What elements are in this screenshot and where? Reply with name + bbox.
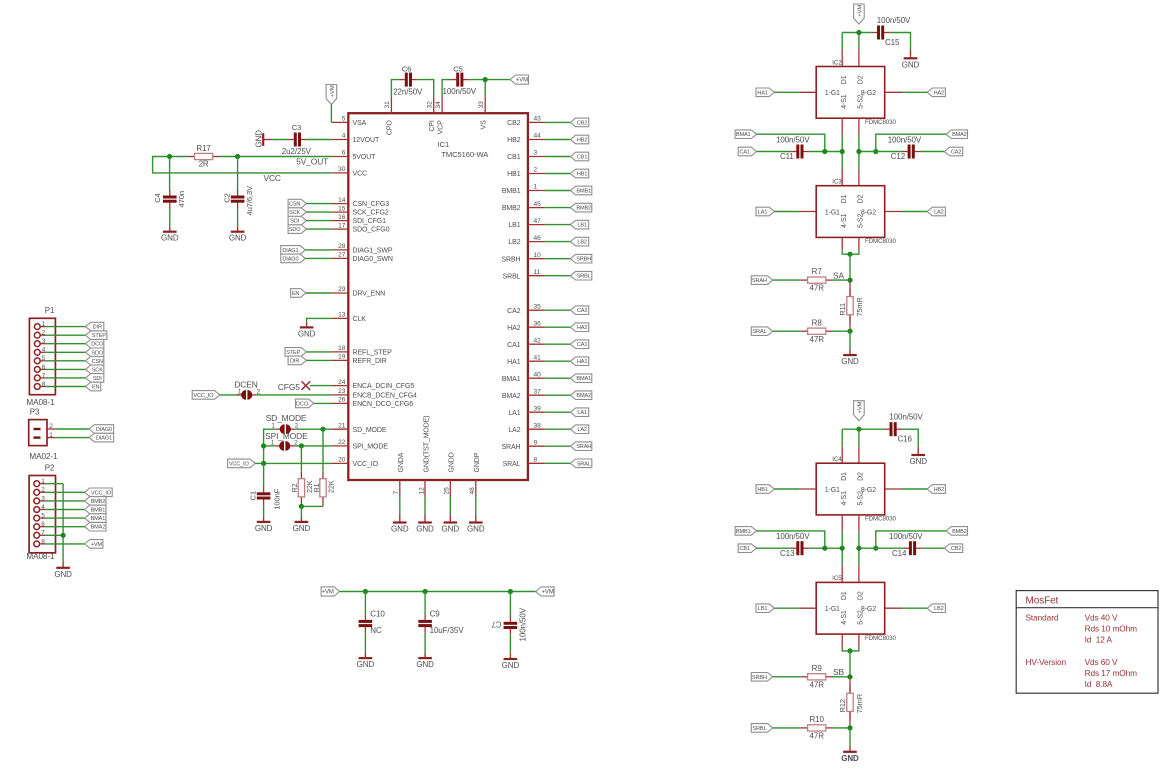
ground bbox=[424, 652, 426, 658]
P2 pin 7 bbox=[34, 532, 40, 538]
svg-text:43: 43 bbox=[534, 116, 542, 123]
svg-text:Vds 40 V: Vds 40 V bbox=[1085, 613, 1118, 623]
resistor R1 bbox=[322, 472, 324, 479]
node flag BMA2 bbox=[570, 391, 591, 400]
svg-text:+VM: +VM bbox=[542, 590, 554, 596]
junction bbox=[847, 252, 852, 257]
svg-text:CB2: CB2 bbox=[507, 120, 521, 127]
junction bbox=[61, 533, 66, 538]
wire bbox=[300, 506, 302, 517]
svg-text:15: 15 bbox=[338, 205, 346, 212]
svg-text:STEP: STEP bbox=[92, 333, 106, 339]
svg-text:GND: GND bbox=[902, 60, 920, 69]
svg-text:IC2: IC2 bbox=[832, 59, 842, 66]
wire to flag HA1 bbox=[545, 360, 571, 362]
IC1 pin 27 DIAG0_SWN stub bbox=[331, 257, 348, 259]
svg-text:GND: GND bbox=[502, 661, 520, 670]
svg-text:VCC_IO: VCC_IO bbox=[353, 461, 379, 468]
svg-text:BMA2: BMA2 bbox=[576, 393, 591, 399]
wire bbox=[46, 526, 85, 528]
wire bbox=[46, 343, 86, 345]
svg-text:SRBH: SRBH bbox=[576, 257, 591, 263]
node flag BMA2 bbox=[85, 522, 106, 531]
svg-text:FDMC8030: FDMC8030 bbox=[865, 238, 896, 245]
P2 pin 4 bbox=[34, 507, 40, 513]
svg-text:BMB2: BMB2 bbox=[576, 206, 591, 212]
node flag SRAL bbox=[570, 459, 591, 468]
svg-text:75mR: 75mR bbox=[855, 694, 864, 713]
svg-text:5V_OUT: 5V_OUT bbox=[296, 157, 328, 167]
wire bbox=[295, 428, 331, 430]
wire S1 riser bbox=[841, 118, 843, 135]
junction bbox=[822, 546, 827, 551]
svg-text:BMA1: BMA1 bbox=[91, 516, 106, 522]
svg-text:100nF: 100nF bbox=[272, 488, 281, 509]
svg-text:BMB2: BMB2 bbox=[952, 529, 967, 535]
wire bbox=[773, 279, 801, 281]
node flag BMB1 bbox=[570, 186, 591, 195]
junction bbox=[423, 589, 428, 594]
ground bbox=[849, 746, 851, 752]
supply flag +VM bbox=[854, 401, 865, 421]
node flag STEP bbox=[86, 331, 107, 340]
wire bbox=[449, 497, 451, 514]
svg-text:HB1: HB1 bbox=[577, 172, 587, 178]
wire bbox=[832, 727, 850, 729]
wire to flag HA2 bbox=[545, 326, 571, 328]
ground bbox=[849, 349, 851, 355]
wire bbox=[306, 220, 331, 222]
wire to flag CA2 bbox=[545, 309, 571, 311]
node flag BMB2 bbox=[570, 203, 591, 212]
svg-text:GND: GND bbox=[357, 660, 375, 669]
wire GND to C3 bbox=[272, 139, 288, 141]
node flag HB2 bbox=[927, 485, 945, 494]
wire bbox=[509, 592, 511, 617]
svg-text:C14: C14 bbox=[892, 549, 907, 558]
svg-text:5-S2: 5-S2 bbox=[858, 610, 865, 625]
svg-text:100n/50V: 100n/50V bbox=[776, 532, 810, 541]
wire bbox=[424, 497, 426, 514]
capacitor C13 bbox=[791, 547, 797, 549]
P1 pin 2 bbox=[34, 332, 40, 338]
svg-text:HB1: HB1 bbox=[507, 171, 521, 178]
svg-text:4: 4 bbox=[42, 347, 46, 354]
svg-text:5-S2: 5-S2 bbox=[858, 94, 865, 109]
IC1 pin 12 GND(TST_MODE) stub bbox=[424, 480, 426, 497]
svg-text:75mR: 75mR bbox=[855, 297, 864, 316]
svg-text:DIAG1: DIAG1 bbox=[282, 248, 298, 254]
node flag SRBL bbox=[751, 724, 772, 733]
svg-text:C1: C1 bbox=[249, 491, 258, 501]
node flag BMB2 bbox=[85, 497, 106, 506]
P1 pin 4 bbox=[34, 349, 40, 355]
P3 pin 1 bbox=[34, 436, 41, 438]
supply flag +VM bbox=[510, 75, 528, 84]
svg-text:GND: GND bbox=[54, 570, 72, 579]
wire D1 riser bbox=[841, 33, 843, 50]
junction bbox=[856, 149, 861, 154]
MosFet info table bbox=[1016, 591, 1158, 694]
svg-text:FDMC8030: FDMC8030 bbox=[865, 635, 896, 642]
svg-text:SPI_MODE: SPI_MODE bbox=[353, 444, 389, 451]
wire bbox=[305, 257, 331, 259]
wire bbox=[876, 531, 946, 548]
junction bbox=[856, 30, 861, 35]
junction bbox=[299, 443, 304, 448]
svg-text:6: 6 bbox=[41, 521, 45, 528]
svg-text:LB2: LB2 bbox=[577, 240, 587, 246]
node flag DIAG0 bbox=[281, 254, 306, 263]
node flag DIAG1 bbox=[281, 246, 306, 255]
supply flag +VM bbox=[536, 587, 554, 596]
svg-text:TMC5160-WA: TMC5160-WA bbox=[441, 150, 489, 159]
svg-text:R17: R17 bbox=[196, 144, 211, 153]
svg-text:HB2: HB2 bbox=[577, 138, 587, 144]
wire S2 riser bbox=[858, 515, 860, 532]
wire bbox=[859, 547, 903, 549]
junction bbox=[840, 546, 845, 551]
IC1 pin 6 5VOUT stub bbox=[331, 156, 348, 158]
svg-text:C2: C2 bbox=[223, 193, 232, 203]
svg-text:R7: R7 bbox=[812, 267, 823, 276]
IC1 pin 31 CPO stub bbox=[390, 96, 392, 113]
svg-text:470n: 470n bbox=[177, 191, 186, 208]
IC1 pin 7 GNDA stub bbox=[399, 480, 401, 497]
wire S1 S2 merge bbox=[841, 634, 843, 647]
svg-text:LA2: LA2 bbox=[577, 427, 587, 433]
ground bbox=[475, 514, 477, 522]
svg-text:10: 10 bbox=[534, 252, 542, 259]
IC1 pin 17 SDO_CFG0 stub bbox=[331, 228, 348, 230]
wire bbox=[773, 676, 801, 678]
IC1 pin 37 BMA2 stub bbox=[528, 394, 545, 396]
svg-text:MA08-1: MA08-1 bbox=[26, 552, 55, 561]
node flag DIAG1 bbox=[89, 433, 114, 442]
svg-text:3: 3 bbox=[534, 150, 538, 157]
IC1 pin 35 CA2 stub bbox=[528, 309, 545, 311]
wire to flag LB1 bbox=[545, 224, 571, 226]
wire bbox=[46, 534, 64, 536]
svg-text:13: 13 bbox=[338, 312, 346, 319]
svg-text:10uF/35V: 10uF/35V bbox=[430, 626, 465, 635]
svg-text:SDO: SDO bbox=[91, 350, 103, 356]
svg-text:GND: GND bbox=[909, 457, 927, 466]
svg-text:BMB1: BMB1 bbox=[91, 508, 106, 514]
svg-text:MA02-1: MA02-1 bbox=[29, 452, 58, 461]
IC1 pin 3 CB1 stub bbox=[528, 156, 545, 158]
svg-text:GND(TST_MODE): GND(TST_MODE) bbox=[423, 415, 430, 472]
svg-text:DCO: DCO bbox=[296, 401, 309, 407]
svg-text:40: 40 bbox=[534, 371, 542, 378]
wire bbox=[773, 330, 801, 332]
svg-text:LA2: LA2 bbox=[508, 427, 520, 434]
svg-text:GND: GND bbox=[229, 234, 247, 243]
wire R1 R2 bottoms bbox=[301, 505, 323, 507]
IC1 pin 39 LA1 stub bbox=[528, 411, 545, 413]
wire bbox=[774, 211, 799, 213]
svg-text:SDO_CFG0: SDO_CFG0 bbox=[353, 227, 390, 234]
wire bbox=[859, 151, 902, 153]
svg-text:BMA2: BMA2 bbox=[502, 393, 521, 400]
wire D2 riser bbox=[858, 33, 860, 50]
wire bbox=[46, 517, 85, 519]
node flag VCC_IO bbox=[192, 391, 220, 400]
node flag DCO bbox=[296, 399, 314, 408]
svg-text:R1: R1 bbox=[312, 483, 321, 492]
IC1 pin 33 VS stub bbox=[484, 96, 486, 113]
wire D1 riser bbox=[841, 429, 843, 446]
wire D2 riser bbox=[858, 429, 860, 446]
node flag SDI bbox=[288, 216, 306, 225]
svg-text:26: 26 bbox=[338, 397, 346, 404]
wire D riser to lower fet bbox=[841, 169, 843, 186]
svg-text:CA1: CA1 bbox=[507, 342, 521, 349]
svg-text:SRBL: SRBL bbox=[503, 273, 521, 280]
wire 5V_OUT row bbox=[238, 156, 332, 158]
wire bbox=[310, 385, 331, 387]
wire S2 riser bbox=[858, 118, 860, 135]
svg-text:R12: R12 bbox=[838, 699, 847, 712]
svg-text:2: 2 bbox=[534, 167, 538, 174]
svg-text:GNDP: GNDP bbox=[474, 452, 481, 472]
svg-text:CB2: CB2 bbox=[577, 120, 587, 126]
node flag HA2 bbox=[570, 323, 588, 332]
ground bbox=[169, 226, 171, 232]
P1 pin 5 bbox=[34, 358, 40, 364]
svg-text:LB1: LB1 bbox=[758, 606, 768, 612]
svg-text:BMA2: BMA2 bbox=[952, 132, 967, 138]
svg-text:6: 6 bbox=[342, 150, 346, 157]
wire bbox=[757, 531, 825, 548]
junction bbox=[873, 546, 878, 551]
svg-text:C6: C6 bbox=[402, 65, 412, 74]
P1 pin 1 bbox=[34, 324, 40, 330]
node flag SRAH bbox=[751, 276, 772, 285]
svg-text:D2: D2 bbox=[858, 472, 865, 481]
svg-text:BMA1: BMA1 bbox=[576, 376, 591, 382]
svg-text:D2: D2 bbox=[858, 194, 865, 203]
IC1 pin 45 BMB2 stub bbox=[528, 207, 545, 209]
P1 pin 6 bbox=[34, 367, 40, 373]
svg-text:+VM: +VM bbox=[330, 85, 336, 97]
IC1 pin 46 LB2 stub bbox=[528, 241, 545, 243]
supply flag +VM bbox=[321, 587, 339, 596]
wire bbox=[809, 151, 842, 153]
svg-text:2R: 2R bbox=[199, 159, 209, 168]
svg-text:SRBL: SRBL bbox=[752, 726, 766, 732]
IC1 pin 22 SPI_MODE stub bbox=[331, 445, 348, 447]
wire C2 to GND bbox=[237, 208, 239, 226]
IC1 pin 24 ENCA_DCIN_CFG5 stub bbox=[331, 385, 348, 387]
wire bbox=[220, 394, 240, 396]
svg-text:28: 28 bbox=[338, 243, 346, 250]
node flag LB2 bbox=[927, 604, 945, 613]
svg-text:1: 1 bbox=[238, 388, 242, 395]
ground bbox=[263, 517, 265, 522]
node flag BMA1 bbox=[85, 514, 106, 523]
svg-text:42: 42 bbox=[534, 337, 542, 344]
node flag BMB2 bbox=[946, 527, 967, 536]
ground bbox=[62, 562, 64, 568]
node flag BMB1 bbox=[735, 527, 756, 536]
svg-text:EN: EN bbox=[292, 291, 300, 297]
wire bbox=[424, 633, 426, 653]
svg-text:6: 6 bbox=[42, 364, 46, 371]
svg-text:48: 48 bbox=[469, 487, 476, 495]
IC1 pin 19 REFR_DIR stub bbox=[331, 359, 348, 361]
svg-text:DIAG0_SWN: DIAG0_SWN bbox=[353, 256, 393, 263]
wire C4 to GND bbox=[169, 208, 171, 226]
ground bbox=[364, 652, 366, 658]
node flag DIAG0 bbox=[89, 425, 114, 434]
svg-text:4-S1: 4-S1 bbox=[841, 491, 848, 506]
svg-text:HA2: HA2 bbox=[934, 90, 944, 96]
wire bbox=[832, 330, 850, 332]
wire bbox=[849, 651, 851, 677]
node flag SRBH bbox=[570, 254, 591, 263]
wire P2 gnd riser bbox=[62, 484, 64, 562]
svg-text:IC5: IC5 bbox=[832, 575, 842, 582]
resistor R17 bbox=[188, 156, 195, 158]
svg-text:FDMC8030: FDMC8030 bbox=[865, 516, 896, 523]
svg-text:VCC_IO: VCC_IO bbox=[91, 490, 112, 496]
ground bbox=[424, 514, 426, 522]
wire to flag BMA2 bbox=[545, 394, 571, 396]
svg-text:VCC_IO: VCC_IO bbox=[229, 461, 250, 467]
svg-text:1-G1: 1-G1 bbox=[825, 90, 840, 97]
svg-text:SDI: SDI bbox=[290, 219, 299, 225]
node flag CB2 bbox=[570, 118, 588, 127]
node flag HA1 bbox=[756, 88, 774, 97]
node flag VCC_IO bbox=[85, 488, 113, 497]
P2 pin 5 bbox=[34, 515, 40, 521]
connector P1 MA08-1 bbox=[29, 318, 55, 394]
node flag DIR bbox=[288, 356, 306, 365]
junction bbox=[363, 589, 368, 594]
capacitor C7 bbox=[509, 616, 511, 622]
connector P3 MA02-1 bbox=[29, 420, 47, 446]
transistor IC2 FDMC8030 body bbox=[816, 67, 885, 119]
svg-text:D1: D1 bbox=[841, 194, 848, 203]
wire bbox=[46, 368, 86, 370]
IC1 pin 11 SRBL stub bbox=[528, 275, 545, 277]
svg-text:DIAG1: DIAG1 bbox=[96, 436, 112, 442]
node flag HA2 bbox=[927, 88, 945, 97]
svg-text:VCC: VCC bbox=[264, 173, 281, 183]
wire bbox=[832, 676, 850, 678]
node flag LA1 bbox=[756, 207, 774, 216]
svg-text:HA1: HA1 bbox=[577, 359, 587, 365]
svg-text:35: 35 bbox=[534, 303, 542, 310]
svg-text:MosFet: MosFet bbox=[1026, 596, 1059, 607]
svg-text:IC4: IC4 bbox=[832, 456, 842, 463]
wire to flag LB2 bbox=[545, 241, 571, 243]
svg-text:14: 14 bbox=[338, 197, 346, 204]
svg-text:D1: D1 bbox=[841, 591, 848, 600]
wire bbox=[219, 156, 237, 158]
svg-text:MA08-1: MA08-1 bbox=[26, 398, 55, 407]
svg-text:SRAH: SRAH bbox=[752, 278, 767, 284]
svg-text:C15: C15 bbox=[885, 38, 900, 47]
svg-text:8: 8 bbox=[42, 381, 46, 388]
svg-text:DIR: DIR bbox=[290, 358, 299, 364]
IC1 pin 9 SRAH stub bbox=[528, 445, 545, 447]
svg-text:1-G1: 1-G1 bbox=[825, 209, 840, 216]
wire bbox=[364, 633, 366, 653]
svg-text:DIAG0: DIAG0 bbox=[96, 427, 112, 433]
svg-text:R8: R8 bbox=[812, 318, 823, 327]
wire bbox=[885, 488, 902, 490]
wire C3 to pin4 bbox=[307, 139, 332, 141]
node flag BMB1 bbox=[85, 505, 106, 514]
svg-text:23: 23 bbox=[338, 388, 346, 395]
wire C5 to pin34 bbox=[442, 80, 450, 97]
svg-text:2: 2 bbox=[41, 487, 45, 494]
node flag SDI bbox=[86, 374, 104, 383]
svg-text:ENCA_DCIN_CFG5: ENCA_DCIN_CFG5 bbox=[353, 383, 415, 390]
wire C2 riser bbox=[237, 157, 239, 191]
svg-text:DIR: DIR bbox=[93, 325, 102, 331]
node flag CA2 bbox=[570, 306, 588, 315]
wire to GND bbox=[902, 429, 918, 446]
IC1 pin 38 LA2 stub bbox=[528, 428, 545, 430]
ground bbox=[300, 517, 302, 522]
node flag LB2 bbox=[570, 237, 588, 246]
svg-text:D1: D1 bbox=[841, 472, 848, 481]
wire to flag HB1 bbox=[545, 173, 571, 175]
svg-text:5-S2: 5-S2 bbox=[858, 213, 865, 228]
svg-text:7: 7 bbox=[41, 530, 45, 537]
svg-text:GND: GND bbox=[467, 525, 485, 534]
svg-text:NC: NC bbox=[370, 626, 382, 635]
svg-text:2: 2 bbox=[49, 423, 53, 430]
svg-text:47R: 47R bbox=[810, 680, 825, 689]
svg-text:30: 30 bbox=[338, 166, 346, 173]
svg-text:Standard: Standard bbox=[1026, 613, 1059, 623]
svg-text:D2: D2 bbox=[858, 75, 865, 84]
svg-text:17: 17 bbox=[338, 222, 346, 229]
svg-text:LB2: LB2 bbox=[934, 606, 944, 612]
IC1 pin 28 DIAG1_SWP stub bbox=[331, 249, 348, 251]
svg-text:DRV_ENN: DRV_ENN bbox=[353, 291, 386, 298]
wire S1 riser bbox=[841, 515, 843, 532]
IC1 pin 36 HA2 stub bbox=[528, 326, 545, 328]
IC1 pin 10 SRBH stub bbox=[528, 258, 545, 260]
svg-text:SD_MODE: SD_MODE bbox=[353, 427, 387, 434]
IC1 pin 40 BMA1 stub bbox=[528, 377, 545, 379]
wire bbox=[256, 394, 331, 396]
transistor IC5 FDMC8030 body bbox=[816, 582, 885, 634]
wire bbox=[832, 279, 850, 281]
svg-text:22n/50V: 22n/50V bbox=[393, 88, 423, 97]
junction bbox=[856, 427, 861, 432]
wire C5 to +VM bbox=[469, 79, 510, 81]
node flag EN bbox=[86, 382, 101, 391]
svg-text:C10: C10 bbox=[370, 610, 385, 619]
wire bbox=[849, 331, 851, 349]
node flag LB1 bbox=[756, 604, 774, 613]
wire bbox=[922, 547, 945, 549]
svg-text:4: 4 bbox=[41, 504, 45, 511]
IC1 pin 1 BMB1 stub bbox=[528, 190, 545, 192]
capacitor C11 bbox=[791, 151, 797, 153]
node flag +VM bbox=[85, 540, 103, 549]
svg-text:31: 31 bbox=[384, 101, 391, 109]
resistor R10 bbox=[801, 727, 808, 729]
resistor R8 bbox=[801, 330, 808, 332]
svg-text:1-G1: 1-G1 bbox=[825, 606, 840, 613]
